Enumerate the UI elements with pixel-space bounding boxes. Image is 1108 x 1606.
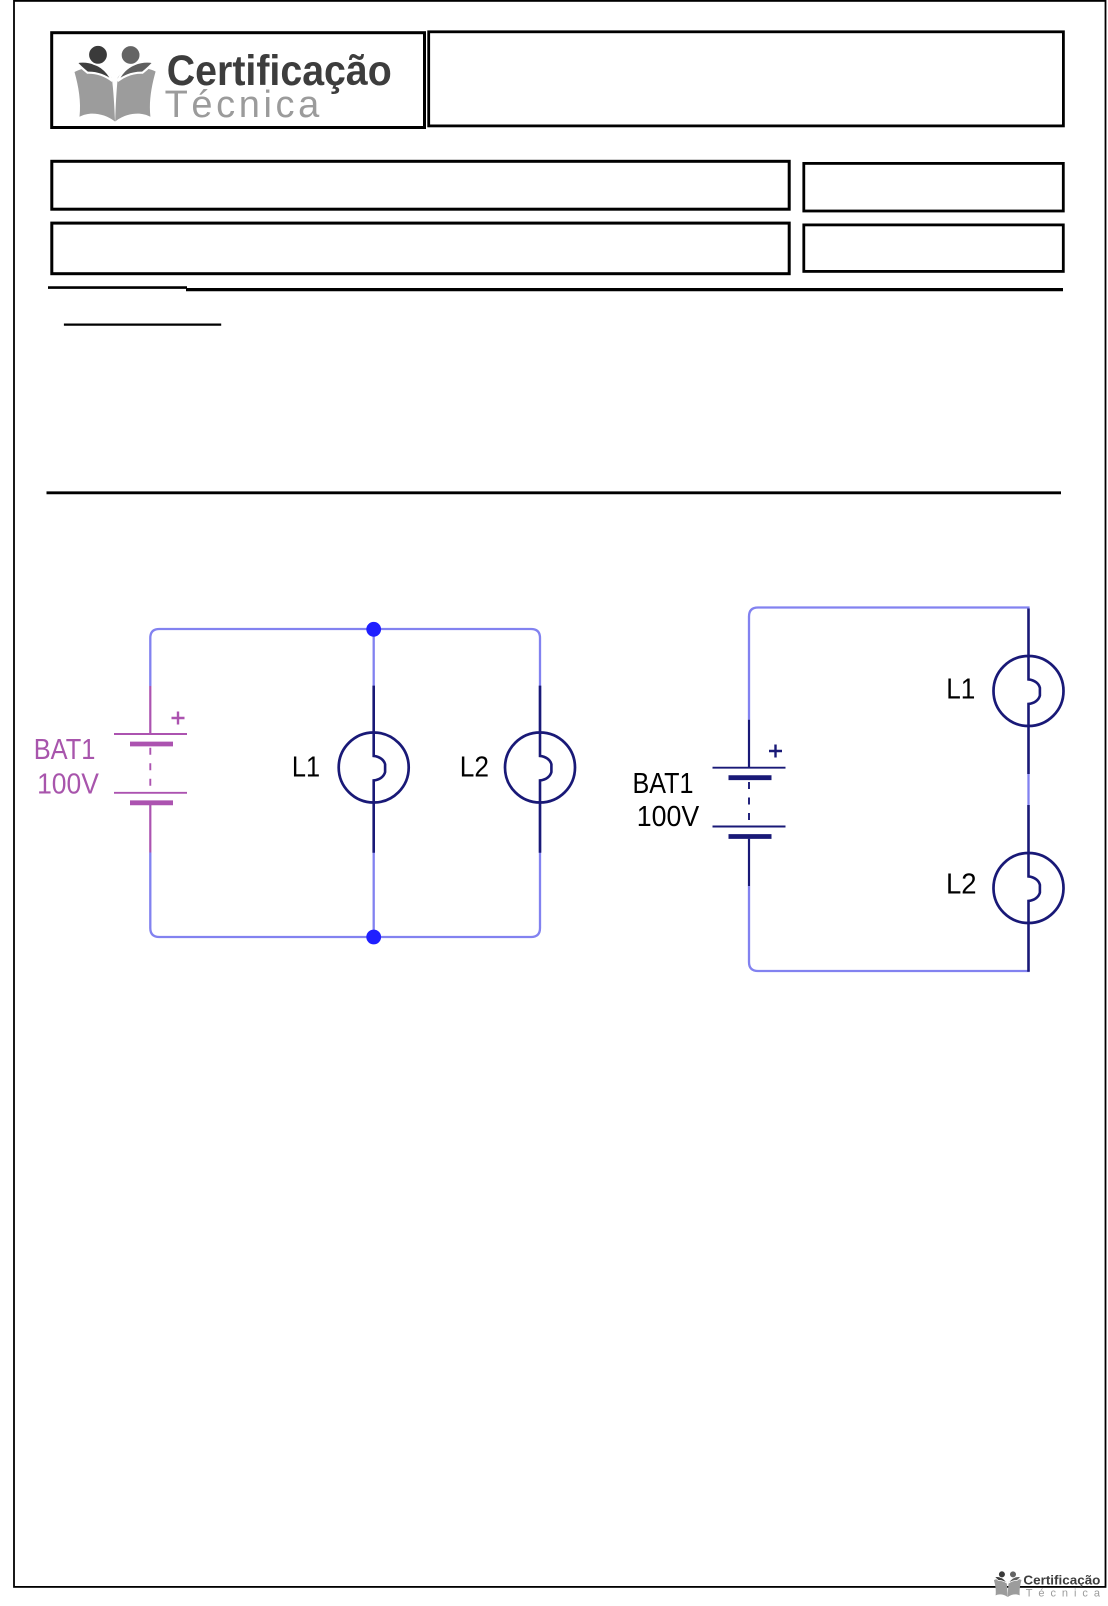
long horizontal rule (47, 491, 1062, 494)
svg-text:Técnica: Técnica (165, 84, 322, 126)
lamp L2 (left circuit) (505, 686, 575, 853)
left head (88, 45, 108, 65)
plus mark (172, 712, 185, 725)
pin bottom (748, 839, 750, 886)
lamp L1 (left circuit) (339, 686, 409, 853)
header row1 wide box (52, 161, 789, 209)
lamp L1 (right circuit) (994, 609, 1064, 775)
wire loop (left circuit) (150, 629, 540, 937)
plate thick bottom (729, 834, 772, 839)
svg-text:100V: 100V (637, 801, 700, 833)
header row2 small box (804, 225, 1064, 272)
svg-text:BAT1: BAT1 (34, 734, 96, 766)
junction node top (366, 622, 381, 637)
plate thick top (729, 775, 772, 780)
wire bottom run (749, 886, 1030, 971)
pin top (149, 686, 151, 734)
svg-text:L2: L2 (460, 751, 489, 783)
short underline (64, 323, 221, 325)
book right page (115, 68, 155, 122)
thick rule right segment (186, 288, 1063, 291)
junction node bottom (366, 930, 381, 945)
right arm (118, 62, 154, 81)
wire middle branch (373, 629, 375, 937)
pin top (748, 720, 750, 768)
wire right mid segment (1027, 774, 1029, 805)
svg-text:BAT1: BAT1 (633, 768, 694, 800)
plate long top (114, 733, 187, 735)
footer logo graphic (994, 1571, 1022, 1597)
svg-text:Técnica: Técnica (1026, 1588, 1101, 1600)
header row2 wide box (52, 223, 789, 274)
book left page (75, 68, 116, 122)
svg-text:Certificação: Certificação (1023, 1572, 1100, 1587)
header title box (429, 32, 1064, 126)
header logo box (52, 33, 425, 128)
svg-text:100V: 100V (37, 769, 99, 801)
wire loop (right circuit) (749, 608, 1030, 720)
left arm (77, 62, 113, 81)
plate long top (713, 767, 786, 769)
pin bottom (149, 805, 151, 853)
plate long bottom (114, 792, 187, 794)
svg-text:L2: L2 (946, 869, 977, 901)
dashed link (748, 782, 750, 825)
plate thick bottom (130, 800, 173, 805)
svg-text:L1: L1 (946, 674, 975, 706)
battery BAT1 (left, magenta) (114, 686, 187, 853)
plus mark (769, 745, 782, 758)
header row1 small box (804, 163, 1064, 211)
battery BAT1 (right, navy) (713, 720, 786, 886)
thick rule left segment (48, 286, 187, 289)
logo graphic (header) (75, 45, 156, 122)
plate thick top (130, 742, 173, 747)
right head (121, 45, 141, 65)
plate long bottom (713, 826, 786, 828)
lamp L2 (right circuit) (994, 805, 1064, 972)
dashed link (149, 748, 151, 791)
svg-text:L1: L1 (292, 751, 320, 783)
